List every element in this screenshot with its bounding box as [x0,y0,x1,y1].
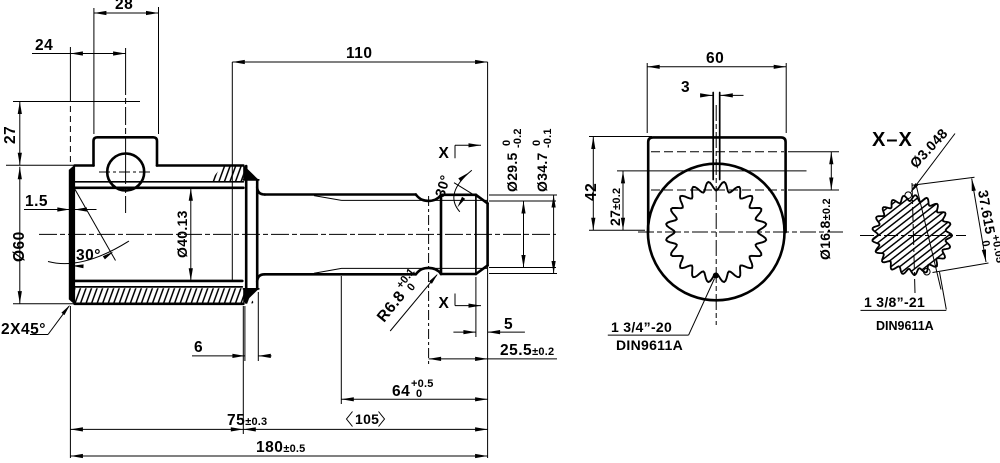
svg-text:1 3/8”-21: 1 3/8”-21 [864,294,925,310]
dim 28 (boss width) [93,8,95,134]
dim O29.5 -0.2/0 [489,200,556,202]
leader R6.8 +0.1/0 (groove radius) [390,275,437,331]
svg-text:-0.2: -0.2 [512,128,524,148]
hole circle vertical centerline / 24-dim extension [125,48,127,213]
30deg end chamfers [476,195,488,204]
svg-text:110: 110 [346,45,373,62]
leader 2X45 chamfer [30,334,48,336]
svg-text:64: 64 [392,383,410,400]
internal spline bore lines (top) [75,181,244,183]
left face with 1.5 wall, solid black band, 2x45 chamfers [69,166,74,304]
dim 180 (bottom) [70,455,487,457]
X-X vertical centerline [912,183,915,293]
svg-text:5: 5 [504,316,513,333]
X-X rosette: 21-spline shaft section [873,195,952,275]
dim 25.5 (to groove center) [428,196,430,364]
svg-text:2X45°: 2X45° [1,321,46,338]
flange rim edges [243,179,258,181]
svg-text:X: X [439,295,450,312]
end view: flange/boss silhouette rect [648,137,785,232]
svg-text:42: 42 [583,183,600,201]
relief groove R6.8 top [416,195,441,201]
main axis centerline [39,233,556,235]
svg-text:X: X [439,145,450,162]
dim 110 (top) [487,62,489,458]
boss on top of cylinder [94,137,158,165]
dim 64 +0.5/0 (spline length) [340,276,342,404]
dim 5 (chamfer length) [475,277,477,337]
spline runout taper line top [314,196,342,201]
shaft O34.7 bottom line to groove [265,273,416,276]
dim 27 (left, vertical) [13,101,140,103]
shaft body: big cylinder O60 outline [75,164,94,167]
svg-text:105: 105 [355,411,379,427]
svg-text:X–X: X–X [872,129,913,151]
dim 27 +-0.2 (hole axis height) [622,171,624,230]
end view: O60 cylinder circle [648,164,785,301]
spline reference dot [713,273,719,279]
svg-text:60: 60 [706,50,724,67]
svg-text:-0.1: -0.1 [542,128,554,148]
end face [486,203,489,265]
hole circle horizontal centerline [99,171,153,173]
svg-text:Ø60: Ø60 [11,231,28,262]
dim O16.8 +-0.2 [788,151,839,153]
section hatch: local break-out at top right of cylinder [210,166,243,181]
chamfer fill bottom-right (solid black wedge) [243,289,259,304]
30deg internal chamfer annotation [73,185,116,261]
dim 3 (slot width) [702,94,713,96]
flange right face (full) with fillets into shaft [256,180,259,289]
label 1 3/4"-20 DIN9611A with leader [689,279,715,336]
dim 75 and (105) [69,306,71,458]
X-X horizontal centerline [860,235,966,237]
measuring pin top (O3.048) [905,192,912,199]
svg-text:DIN9611A: DIN9611A [876,319,934,333]
(105) with angle brackets [347,412,353,427]
svg-text:27: 27 [2,126,19,144]
hidden hole O16.8 edges (dashed) [651,151,784,153]
cylinder right face [245,166,248,303]
svg-text:30°: 30° [76,247,101,264]
hole axis line / 27 extension [617,170,807,172]
dim O60 [13,303,75,305]
svg-text:Ø40.13: Ø40.13 [174,210,190,258]
dim O34.7 -0.1/0 [489,194,557,196]
dim 24 (face to hole axis) [69,47,71,102]
svg-text:1 3/4”-20: 1 3/4”-20 [611,319,672,335]
svg-text:24: 24 [35,37,53,54]
chamfer start line on splined end [475,195,477,274]
svg-text:28: 28 [115,0,133,13]
splined end section outline [440,195,443,274]
dim 37.615 +0.05/0 across splines [912,177,975,185]
hole circle O16.8 in boss [107,154,144,191]
measuring pin axis line [917,187,942,290]
internal spline bore lines (bottom) [75,280,243,283]
section hatch: bottom band of cylinder wall [75,288,255,303]
svg-text:Ø29.5: Ø29.5 [504,152,520,192]
svg-text:0: 0 [416,388,422,400]
end view horizontal centerline [638,231,845,233]
svg-text:Ø34.7: Ø34.7 [534,152,550,192]
end view vertical centerline [715,105,717,325]
dim 6 (flange width) [244,306,246,361]
slot 3mm in top [712,93,714,180]
chamfer fill top-right (solid black wedge) [243,165,259,180]
svg-text:DIN9611A: DIN9611A [616,337,683,353]
dim 1.5 (spline wall at face) [24,209,58,211]
label 1 3/8"-21 DIN9611A with leader [940,272,947,310]
relief groove R6.8 bottom [416,268,441,274]
spline runout taper line bottom [314,268,342,273]
svg-text:1.5: 1.5 [25,193,48,210]
dim O40.13 (bore) [190,188,192,280]
end view: internal spline ring [666,182,766,282]
svg-text:6: 6 [194,339,203,356]
shaft O34.7 top line to groove [265,193,416,196]
spline minor diameter O29.5 line top [342,199,488,201]
svg-text:3: 3 [681,79,690,96]
dim 42 (end view left) [589,136,652,138]
30deg end-chamfer annotation [454,183,488,204]
dim 60 (end view) [646,63,648,133]
measuring pin bottom (O3.048) [924,268,931,275]
leader O3.048 [912,134,956,192]
internal spline end line / 110 extension [231,62,233,281]
spline minor diameter O29.5 line bottom [342,267,488,269]
